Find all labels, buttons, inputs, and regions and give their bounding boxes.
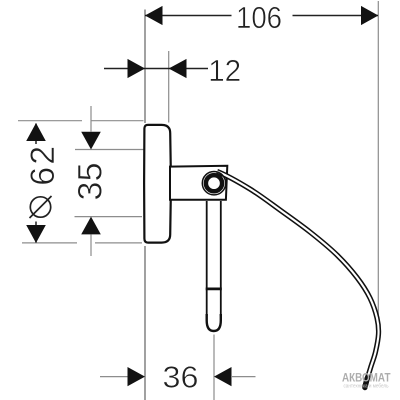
svg-text:36: 36 bbox=[163, 360, 199, 395]
svg-text:35: 35 bbox=[72, 163, 110, 201]
svg-text:сантехника и мебель: сантехника и мебель bbox=[344, 384, 389, 390]
svg-text:12: 12 bbox=[208, 53, 241, 88]
svg-text:106: 106 bbox=[236, 0, 282, 35]
